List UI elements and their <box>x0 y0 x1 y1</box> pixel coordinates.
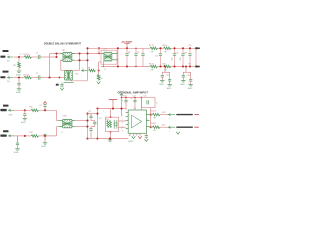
frame feedback box <box>142 97 156 107</box>
wire term left vertical <box>87 114 89 139</box>
svg-text:C1: C1 <box>36 53 38 55</box>
connector X2 pad label <box>3 71 9 73</box>
ground stage2 <box>17 88 21 90</box>
shunt C18 above <box>43 101 46 103</box>
junction drop165 <box>164 65 166 67</box>
ground stage3 <box>23 118 27 120</box>
wire supply rail <box>122 97 142 99</box>
svg-text:1: 1 <box>169 131 170 133</box>
junction stage1 <box>18 56 20 58</box>
junction c9 bottom <box>135 66 136 67</box>
wire T2 bottom out <box>71 80 88 82</box>
wire box to IC top <box>119 120 126 122</box>
supply minus U1 <box>139 133 141 136</box>
junction stage3 shunt <box>44 109 46 111</box>
capacitor C19 shunt <box>23 113 26 115</box>
ground stage1 <box>17 70 21 72</box>
frame gain box <box>105 117 118 131</box>
junction lift <box>98 69 100 71</box>
ground C14 <box>160 80 164 82</box>
wire to gnd2 <box>18 85 20 88</box>
junction term d <box>86 138 88 140</box>
transformer TR4 pins <box>58 120 62 122</box>
junction term c <box>86 126 88 128</box>
capacitor C30 shunt <box>189 48 191 53</box>
junction amp top a <box>96 108 98 110</box>
wire top rail <box>88 47 151 49</box>
wire box to IC bottom <box>119 126 126 128</box>
junction amp left top <box>96 113 98 115</box>
wire stage3 gnd <box>24 116 26 119</box>
svg-text:C27: C27 <box>133 95 136 97</box>
op-amp U1 triangle <box>132 115 142 128</box>
capacitor C10 shunt <box>142 48 144 53</box>
svg-text:R16 47: R16 47 <box>151 123 157 125</box>
wire balun right vertical <box>87 48 89 81</box>
resistor R1 <box>24 56 32 59</box>
ground stage4 <box>15 148 19 150</box>
connector X3 pin label <box>0 109 6 111</box>
svg-text:3: 3 <box>8 74 9 76</box>
svg-text:DOUBLE BALUN / SYMM INPUT: DOUBLE BALUN / SYMM INPUT <box>44 43 81 46</box>
transformer TR2 bottom bar <box>64 82 74 84</box>
junction amp left bottom <box>96 138 98 140</box>
connector X1 pad label <box>3 50 9 52</box>
wire stage2 main <box>14 77 25 79</box>
net flag IN4 <box>9 135 11 137</box>
resistor R16 <box>152 126 160 129</box>
wire bottom rail <box>101 66 150 68</box>
wire stage3 main <box>14 109 31 111</box>
wire pin2 drop <box>121 98 123 117</box>
capacitor C1 series <box>37 55 39 59</box>
junction c12 bottom <box>173 65 175 67</box>
wire drop x165 <box>164 67 166 73</box>
capacitor C25 in box <box>113 120 115 129</box>
net tick OUT+ <box>194 114 199 116</box>
ground U1 a <box>133 133 135 136</box>
transformer TR4 <box>63 122 72 126</box>
junction c9 top <box>135 48 136 49</box>
svg-text:C11: C11 <box>155 55 158 57</box>
resistor R7 top rail <box>150 47 158 50</box>
T2 center tap <box>61 83 63 85</box>
junction rail start <box>86 47 88 49</box>
supply +48V bar <box>124 42 129 44</box>
svg-text:C3: C3 <box>40 105 42 107</box>
transformer TR3 <box>104 54 111 59</box>
wire out1 b <box>160 114 168 116</box>
junction top rail a <box>117 47 119 49</box>
capacitor C4 shunt <box>17 82 20 84</box>
svg-text:C2: C2 <box>36 73 38 75</box>
transformer TR2 <box>67 71 71 80</box>
capacitor C24 <box>94 121 96 123</box>
svg-text:+: + <box>131 98 132 100</box>
svg-text:+: + <box>122 100 123 102</box>
svg-text:C22: C22 <box>88 111 91 113</box>
op-amp U1 pins left <box>126 111 129 113</box>
svg-text:IN 1: IN 1 <box>7 61 10 63</box>
capacitor C13 shunt <box>182 48 184 53</box>
wire feedback up <box>141 98 143 111</box>
capacitor C9 shunt <box>135 48 137 53</box>
net flag lift <box>82 69 84 71</box>
junction TR3 bl <box>103 66 104 67</box>
resistor R12 <box>31 135 39 138</box>
wire stage1 shunt <box>18 58 20 62</box>
svg-text:1:1: 1:1 <box>61 132 63 134</box>
wire out1 <box>150 114 153 116</box>
junction stage3 <box>24 109 26 111</box>
wire stage4 corner <box>56 127 58 136</box>
wire amp bottom feed <box>98 138 129 140</box>
wire cross vertical x79.5 <box>79 54 81 71</box>
wire to gnd1 <box>18 68 20 71</box>
pin stub U1 c <box>136 133 138 135</box>
svg-text:R2 10k: R2 10k <box>24 75 30 77</box>
junction c13 bottom <box>182 65 184 67</box>
junction c11 bottom <box>159 65 161 67</box>
wire TR4 out bottom <box>75 126 88 128</box>
svg-text:1:1: 1:1 <box>104 69 106 71</box>
svg-text:C26: C26 <box>124 95 127 97</box>
junction fb a <box>150 114 152 116</box>
wire term bottom <box>88 138 98 140</box>
shunt C21 on line <box>43 133 46 135</box>
svg-text:TR2: TR2 <box>75 74 78 76</box>
wire drop x186 <box>185 67 187 73</box>
svg-text:U1: U1 <box>134 108 136 110</box>
svg-text:R4: R4 <box>88 67 90 69</box>
junction c8 bottom <box>126 65 128 67</box>
junction stage2 <box>18 76 20 78</box>
junction c12 top <box>173 47 175 49</box>
junction x196 top <box>195 47 197 49</box>
ground C15 <box>168 84 172 86</box>
wire TR3 bl drop <box>103 61 105 67</box>
svg-text:OUT+: OUT+ <box>162 112 166 114</box>
supply VCC stub <box>112 100 114 109</box>
transformer TR1 pins <box>60 53 63 55</box>
svg-text:TR4: TR4 <box>63 115 66 117</box>
svg-text:100n: 100n <box>172 57 174 61</box>
ground C21 <box>43 142 47 144</box>
junction x87.5 a <box>86 52 88 54</box>
capacitor C14 <box>161 72 163 75</box>
junction stage4 <box>24 135 26 137</box>
junction amp bottom a <box>109 138 111 140</box>
junction stage4 shunt <box>44 135 46 137</box>
junction box stub <box>110 116 112 118</box>
ground lift arrow <box>97 81 101 83</box>
svg-text:1n: 1n <box>156 103 158 105</box>
resistor R13 in box <box>107 120 109 128</box>
junction x87.5 b <box>86 59 88 61</box>
junction x190 bottom <box>189 65 191 67</box>
junction riser bottom <box>55 56 57 58</box>
wire stage2 shunt <box>18 78 20 83</box>
wire out2 b <box>160 126 168 128</box>
capacitor C22 <box>90 114 92 116</box>
net flag OUT- <box>168 126 170 128</box>
connector X3 pad label <box>3 105 9 107</box>
resistor R11 <box>31 109 39 112</box>
capacitor C26 supply <box>125 98 127 101</box>
resistor R9 bottom rail <box>150 65 158 68</box>
junction x196 bottom <box>195 65 197 67</box>
svg-text:C31: C31 <box>99 118 102 120</box>
junction amp top b <box>112 108 114 110</box>
junction box bottom <box>110 131 112 133</box>
label dark T2 <box>56 84 59 86</box>
svg-text:SY-: SY- <box>189 63 192 65</box>
wire stage3 cap drop <box>24 110 26 113</box>
svg-text:R1 10k: R1 10k <box>24 54 30 56</box>
capacitor C2 series <box>37 75 39 79</box>
junction x79.5 top <box>78 52 80 54</box>
pin stub U1 b <box>129 133 131 135</box>
capacitor C29 feedback <box>146 100 148 104</box>
wire term top <box>88 113 98 115</box>
junction fb b <box>150 126 152 128</box>
svg-text:R15 47: R15 47 <box>151 111 157 113</box>
op-amp U1 body <box>128 110 146 133</box>
connector X1 pin label <box>0 56 5 58</box>
ground amp mid <box>109 139 111 140</box>
svg-text:R3: R3 <box>13 65 15 67</box>
svg-text:C8: C8 <box>128 52 130 54</box>
capacitor C23 <box>90 127 92 129</box>
wire lift to TR3 <box>99 61 101 63</box>
wire stage1 riser <box>56 54 58 58</box>
wire TR1 bottom out <box>75 59 88 61</box>
junction rail drop top <box>98 47 100 49</box>
wire amp top feed <box>98 108 126 110</box>
svg-text:R10: R10 <box>163 63 166 65</box>
transformer TR3 pins <box>101 52 104 54</box>
junction c11 top <box>159 47 161 49</box>
net flag IN2 <box>8 76 10 78</box>
supply arrow green <box>120 93 123 95</box>
resistor R3 shunt <box>18 62 21 68</box>
junction x79.5 mid <box>78 59 80 61</box>
wire lift vertical <box>98 62 100 74</box>
junction term b <box>86 120 88 122</box>
wire vert x196 <box>195 48 197 66</box>
capacitor C11 shunt <box>160 48 162 53</box>
frame TR3 box <box>101 50 117 64</box>
svg-text:7: 7 <box>169 118 170 120</box>
resistor R6 shunt <box>97 74 100 80</box>
wire box top stub <box>110 109 112 118</box>
svg-text:SY+: SY+ <box>189 45 192 47</box>
net flag IN1 <box>8 56 10 58</box>
svg-text:C29: C29 <box>144 95 147 97</box>
svg-text:TR1: TR1 <box>62 50 65 52</box>
svg-text:R12: R12 <box>29 132 32 134</box>
svg-text:R6: R6 <box>100 78 102 80</box>
capacitor C28 out <box>145 133 147 135</box>
junction x190 top <box>189 47 191 49</box>
svg-text:2: 2 <box>8 54 9 56</box>
ground C16 <box>181 80 185 82</box>
junction c13 top <box>182 47 184 49</box>
wire stage4 gnd <box>17 145 19 149</box>
junction term a <box>86 113 88 115</box>
junction bottom rail a <box>117 65 119 67</box>
junction srail b <box>125 97 127 99</box>
junction amp top c <box>120 108 122 110</box>
svg-text:C7: C7 <box>20 54 22 56</box>
ground C17 <box>189 84 193 86</box>
svg-text:IN 2: IN 2 <box>7 81 10 83</box>
wire out2 <box>149 126 152 128</box>
ground right small <box>176 132 180 134</box>
wire TR3 out to rail <box>117 48 119 66</box>
wire TR4 out top <box>75 120 88 122</box>
svg-text:C14: C14 <box>166 75 169 77</box>
svg-text:C13: C13 <box>184 52 187 54</box>
junction rail drop bottom <box>98 53 100 55</box>
resistor R4 <box>89 69 96 72</box>
net flag IN3 <box>9 109 11 111</box>
junction sup <box>126 47 128 49</box>
wire rail to TR3 drop <box>98 48 100 53</box>
wire TR1 bl drop <box>60 60 62 70</box>
wire T2 top link <box>61 69 80 71</box>
wire stage1 main <box>14 56 25 58</box>
net flag OUT+ <box>168 114 170 116</box>
net name OUT- bar <box>176 127 193 128</box>
svg-text:C9: C9 <box>137 52 139 54</box>
junction srail a <box>121 97 123 99</box>
connector X4 pad label <box>3 130 9 132</box>
connector X4 pin label <box>0 135 6 137</box>
wire balun left vertical <box>49 54 51 78</box>
op-amp U1 pins right <box>146 114 149 116</box>
capacitor C12 shunt <box>174 48 176 53</box>
resistor R15 <box>152 113 160 116</box>
junction drop186 <box>185 65 187 67</box>
wire stage4 main <box>14 135 31 137</box>
net name OUT+ bar <box>176 114 193 115</box>
capacitor C8 shunt <box>126 48 128 53</box>
resistor R2 <box>24 76 32 79</box>
svg-text:C12: C12 <box>176 52 179 54</box>
capacitor C27 supply <box>134 98 136 101</box>
junction riser top <box>55 52 57 54</box>
wire balun top net <box>50 53 63 55</box>
junction balun left bottom <box>48 76 50 78</box>
svg-text:R11: R11 <box>29 107 32 109</box>
wire stage4 cap drop <box>17 136 19 143</box>
net tick OUT- <box>194 126 199 128</box>
resistor R8 top rail <box>164 47 172 50</box>
svg-text:100n: 100n <box>180 57 182 61</box>
junction srail c <box>134 97 136 99</box>
resistor R14 in box <box>109 120 111 128</box>
wire amp left rail <box>97 109 99 139</box>
connector X2 pin label <box>0 76 5 78</box>
svg-text:OUT-: OUT- <box>162 124 166 126</box>
wire term mid links <box>91 120 95 122</box>
capacitor C20 shunt <box>16 142 19 144</box>
svg-text:C16: C16 <box>187 75 190 77</box>
junction srail d <box>141 97 143 99</box>
supply +48V stub <box>126 43 128 48</box>
capacitor C17 <box>190 72 192 79</box>
resistor R10 bottom rail <box>164 65 172 68</box>
wire box bottom stub <box>110 132 112 139</box>
junction stage2 t2 <box>59 77 61 79</box>
transformer TR1 <box>63 55 71 60</box>
supply VCC bar <box>109 99 117 101</box>
wire feedback down <box>150 108 152 128</box>
capacitor C16 <box>182 72 184 75</box>
capacitor C15 <box>169 72 171 79</box>
svg-text:+: + <box>133 123 134 125</box>
svg-text:R13: R13 <box>106 119 109 121</box>
wire stage3 corner <box>56 110 58 120</box>
